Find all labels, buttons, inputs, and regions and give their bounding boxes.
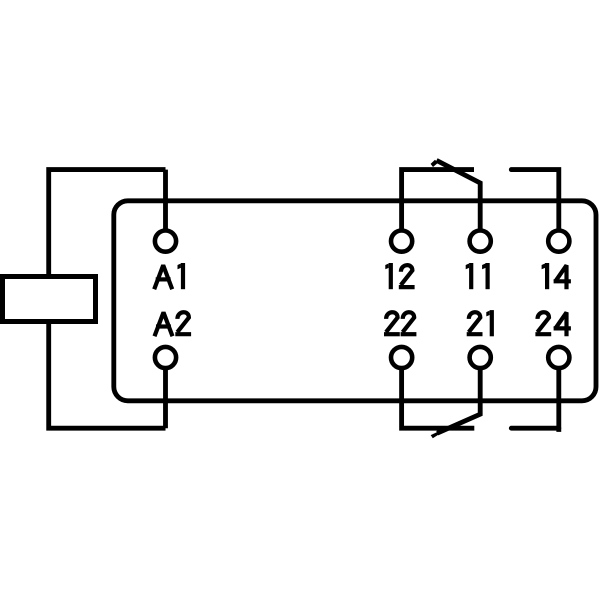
relay body outline xyxy=(114,201,596,401)
terminal A2 xyxy=(155,347,176,368)
contact arm 11 (top changeover) xyxy=(437,160,481,241)
label 11 xyxy=(466,263,490,289)
arm tip tick (bottom) xyxy=(431,432,438,438)
contact NC 22 fixed bar xyxy=(402,358,475,429)
contact arm 21 (bottom changeover) xyxy=(437,358,480,434)
label 22 xyxy=(384,312,416,334)
label 21 xyxy=(467,310,494,336)
coil K1 xyxy=(3,277,96,322)
contact NO 14 fixed bar xyxy=(511,170,559,241)
terminal A1 xyxy=(155,231,176,252)
contact NO 24 fixed bar xyxy=(511,426,559,431)
terminal 22 xyxy=(391,347,412,368)
contact NC 12 fixed bar xyxy=(402,170,474,241)
terminal 24 xyxy=(548,347,569,368)
label 12 xyxy=(385,263,414,289)
wire stem A2 xyxy=(163,358,168,429)
wire coil loop A1-A2 xyxy=(49,170,166,429)
terminal 12 xyxy=(391,231,412,252)
label A1 xyxy=(154,263,185,289)
arm tip tick (top) xyxy=(431,160,438,167)
label A2 xyxy=(155,312,192,336)
terminal 21 xyxy=(470,347,491,368)
terminal 11 xyxy=(470,231,491,252)
label 24 xyxy=(535,312,570,336)
wire stem A1 xyxy=(163,170,168,241)
label 14 xyxy=(542,263,571,289)
terminal 14 xyxy=(548,231,569,252)
